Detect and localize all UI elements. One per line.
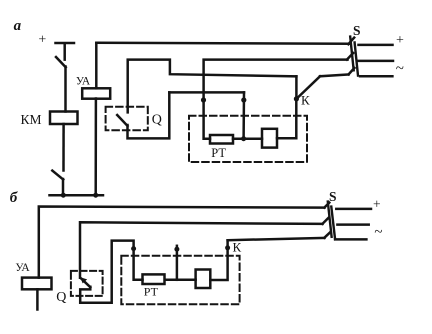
label YA (circuit b) [15,262,30,274]
switch S linkage bars (circuit a) [350,37,358,76]
node dot bottom-right [93,193,98,198]
svg-text:Q: Q [152,113,162,128]
coil KM [50,112,78,125]
breaker aux contact Q dashed box (circuit a) [106,107,148,130]
label K (circuit a) [301,93,310,108]
breaker aux contact Q dashed box (circuit b) [71,271,103,296]
coil YA (trip coil, circuit a) [82,88,110,98]
wire supply mid (right, circuit b) [337,223,368,226]
label S (circuit a) [353,23,361,38]
wire K fixed terminal drop [295,76,298,99]
label ~ supply (circuit b) [374,225,382,241]
wire bottom rail (circuit a) [50,194,104,197]
wire right branch of bus down [242,92,245,138]
svg-text:б: б [10,190,18,206]
contact K blade (circuit a) [296,76,320,99]
wire top bus to switch S (circuit a) [96,43,349,44]
wire supply ~ (right, circuit a) [360,75,392,78]
wire relay element to K node (circuit b) [210,240,227,280]
resistor RT heater element (circuit b) [143,274,165,284]
node dot bottom-left [61,193,66,198]
svg-text:Q: Q [56,290,66,305]
wire resistor to relay element (circuit b) [166,279,196,282]
svg-text:~: ~ [374,225,382,241]
contact SB1 blade (upper contact in KM branch) [56,57,66,67]
resistor RT heater element (circuit a) [210,135,233,144]
relay RT coil element (vertical rect, circuit a) [262,129,277,148]
label ~ supply (circuit a) [396,61,404,77]
wire resistor to relay element [233,137,262,140]
wire Q branch riser [128,60,297,113]
wire parallel bus (circuit a) [169,91,244,94]
wire to bottom node [62,179,65,195]
label Q (circuit b) [56,290,66,305]
switch S blade ticks (circuit a) [347,38,355,75]
svg-text:КМ: КМ [21,112,42,127]
label K (circuit b) [233,240,242,255]
label RT (circuit a) [211,146,226,160]
plus terminal label (left, circuit a) [38,32,46,47]
wire YA branch lower [94,99,97,196]
svg-text:УА: УА [76,76,91,88]
contact SB2 blade (lower contact in KM branch) [52,171,63,180]
label Q (circuit a) [152,113,162,128]
node dot center branch [201,97,206,102]
wire top bus (circuit b) [39,207,325,278]
wire Q bottom path (circuit b) [80,241,142,303]
wire center branch (from S middle pole down to RT) [204,60,348,139]
wire K to switch S (circuit b) [228,238,325,240]
contact Q blade with arrow (circuit b) [80,277,90,287]
wire supply + (right, circuit a) [359,44,393,47]
svg-text:~: ~ [396,61,404,77]
node dot RT left terminal (circuit b) [131,246,136,251]
relay RT coil element (vertical rect, circuit b) [196,270,211,289]
label RT (circuit b) [144,285,159,299]
label + supply (circuit a) [396,33,404,48]
label b (circuit b) [10,190,18,206]
switch S blade ticks (circuit b) [322,203,330,238]
node dot resistor junction [241,136,246,141]
label KM [21,112,42,127]
svg-text:К: К [233,240,242,255]
svg-text:а: а [14,18,22,34]
wire KM branch upper [64,67,67,112]
node dot K (circuit b) [225,245,230,250]
wire stub below YA (circuit b) [36,289,39,309]
contact Q blade (circuit a) [117,115,127,126]
label S (circuit b) [329,189,337,204]
wire supply ~ (right, circuit b) [335,238,366,241]
wire second bus (circuit b) [80,222,323,277]
switch S linkage bars (circuit b) [328,202,335,240]
svg-text:S: S [353,23,361,38]
wire Q bottom to bus [128,92,170,138]
svg-text:К: К [301,93,310,108]
svg-text:+: + [373,196,381,211]
wire KM branch lower [62,124,65,171]
label a (circuit a) [14,18,22,34]
terminal bar (+ supply, circuit a) [56,43,75,60]
wire middle terminal stub (circuit b) [176,246,179,280]
relay RT dashed box (circuit b) [121,256,239,304]
coil YA (circuit b) [22,278,52,290]
node dot middle terminal (circuit b) [174,247,179,252]
wire YA branch upper [95,43,98,88]
svg-text:РТ: РТ [211,146,226,160]
svg-text:УА: УА [15,262,30,274]
wire supply + (right, circuit b) [336,208,371,211]
wire relay element to K node [277,99,296,138]
svg-text:+: + [396,33,404,48]
label + supply (circuit b) [373,196,381,211]
node dot right branch upper [241,97,246,102]
label YA (circuit a) [76,76,91,88]
wire K to switch S lower pole [320,74,349,76]
svg-text:+: + [38,32,46,47]
svg-text:S: S [329,189,337,204]
svg-text:РТ: РТ [144,285,159,299]
relay RT dashed box (circuit a) [189,116,307,162]
wire supply mid (right, circuit a) [358,60,393,63]
node dot K [294,96,299,101]
